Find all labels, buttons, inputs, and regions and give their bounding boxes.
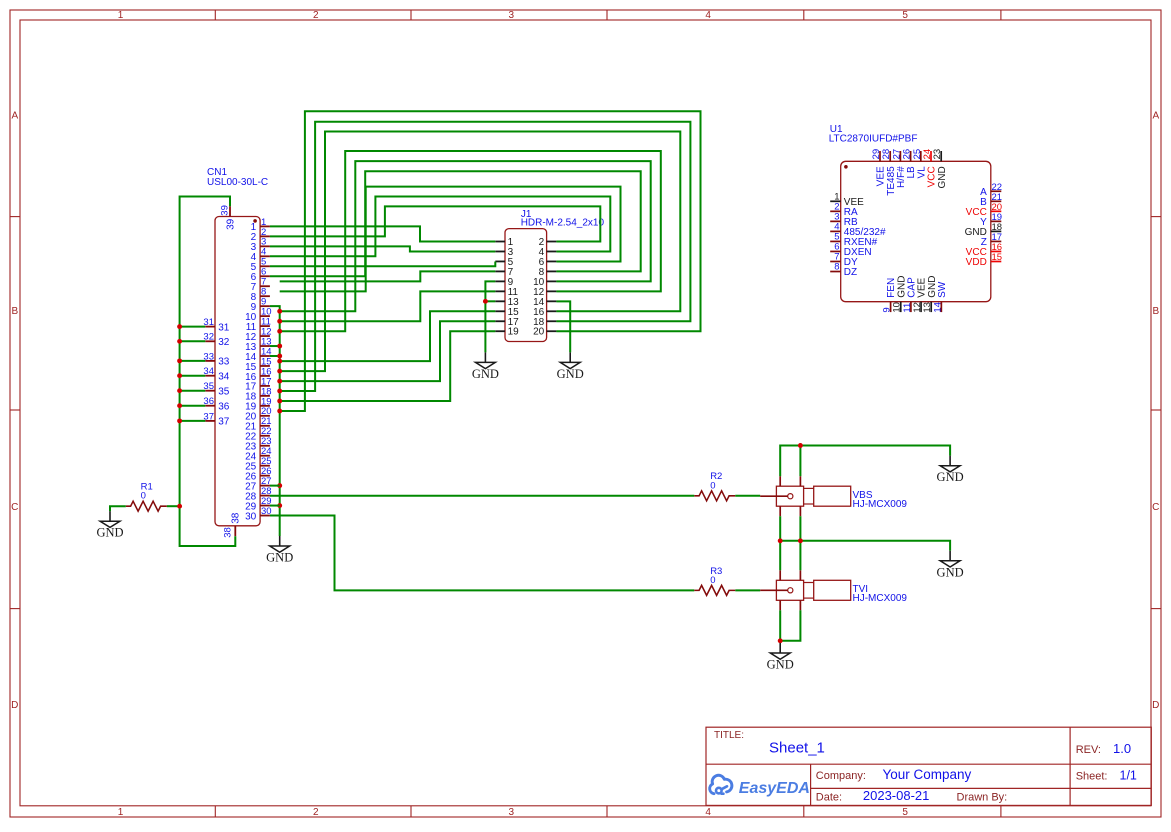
wire R3 to TVI [735, 589, 760, 591]
svg-text:GND: GND [557, 367, 584, 381]
wire rail row401 to J1 pin19 [280, 331, 496, 401]
svg-text:REV:: REV: [1076, 744, 1101, 756]
wire CN1 pin27 to rail [270, 485, 280, 487]
wire VBS bottom / TVI top shields to ground [780, 516, 950, 570]
VBS shield pins [780, 476, 800, 516]
J1 left pins (odd) [495, 237, 519, 338]
TVI signal pin [760, 589, 788, 591]
wire R1 to rail [167, 505, 180, 507]
ground GND rail [266, 536, 293, 565]
svg-text:38: 38 [231, 512, 242, 524]
junction dots on CN1 rail [277, 309, 282, 508]
ruler column labels [118, 10, 909, 818]
svg-text:5: 5 [902, 807, 908, 818]
svg-text:3: 3 [509, 807, 515, 818]
J1 right pins (even) [533, 237, 556, 338]
CN1 left pins 31-37 [205, 327, 215, 421]
CN1 right pin numbers [261, 217, 272, 517]
svg-text:1.0: 1.0 [1113, 741, 1131, 756]
wire CN1 pin9 ground rail [270, 306, 280, 536]
svg-text:D: D [11, 700, 18, 711]
wire rail row361 to J1 pin15 [280, 311, 496, 361]
CN1 pin 38 bottom stub [223, 512, 242, 538]
wire CN1 pin2 loop9 to J1 pin2 [270, 206, 600, 241]
svg-text:GND: GND [266, 551, 293, 565]
ground GND J1 right [557, 352, 584, 381]
svg-text:2023-08-21: 2023-08-21 [863, 788, 930, 803]
svg-text:14: 14 [932, 302, 943, 313]
ground GND R1 [96, 511, 123, 540]
CN1 right pins 1-30 [260, 226, 270, 515]
ruler row labels [11, 111, 1159, 711]
svg-text:GND: GND [472, 367, 499, 381]
wire CN1 pin14 to rail [270, 355, 280, 357]
svg-text:HJ-MCX009: HJ-MCX009 [853, 499, 908, 510]
wire rail row411 loop1 to J1 pin20 [280, 111, 701, 411]
TVI shield pins [780, 570, 800, 610]
svg-text:36: 36 [218, 402, 230, 413]
svg-text:38: 38 [223, 527, 234, 538]
svg-text:Company:: Company: [816, 770, 866, 782]
svg-text:GND: GND [937, 166, 948, 188]
svg-text:15: 15 [992, 252, 1003, 263]
svg-text:GND: GND [767, 658, 794, 672]
CN1 right pin names [245, 222, 257, 522]
wire CN1 pin28 to R2 [270, 495, 694, 497]
wire R1 to ground [110, 506, 126, 511]
wire CN1 pin6 loop6 to J1 pin8 [270, 171, 641, 276]
svg-text:GND: GND [937, 565, 964, 579]
connector TVI HJ-MCX009 body [776, 580, 850, 600]
connector J1 body [505, 229, 547, 342]
svg-text:2: 2 [313, 807, 319, 818]
svg-text:35: 35 [218, 387, 230, 398]
svg-text:39: 39 [220, 205, 231, 216]
svg-text:30: 30 [245, 511, 257, 522]
resistor R3 [694, 585, 735, 595]
wire row291 loop7 to J1 pin6 [280, 187, 621, 292]
svg-text:1: 1 [118, 10, 124, 21]
resistor R1 [126, 501, 167, 511]
wire rail row321 to J1 pin11 [280, 291, 496, 321]
wire rail row391 loop2 to J1 pin18 [280, 122, 691, 391]
CN1 left pin names [218, 322, 230, 427]
svg-text:A: A [1152, 111, 1159, 122]
svg-text:34: 34 [218, 372, 230, 383]
svg-text:HJ-MCX009: HJ-MCX009 [853, 593, 908, 604]
svg-text:33: 33 [218, 357, 230, 368]
wires CN1 pins31-37 to left rail [180, 327, 206, 421]
junction TVI bottom [778, 638, 783, 643]
svg-text:3: 3 [509, 10, 515, 21]
VBS signal pin [760, 495, 788, 497]
svg-text:20: 20 [533, 327, 545, 338]
wire CN1 pin3 to J1 pin3 [270, 246, 495, 251]
wire CN1 pin29 to rail [270, 505, 280, 507]
wire J1 pin9 pin13 to ground [485, 281, 495, 352]
svg-text:GND: GND [96, 526, 123, 540]
svg-text:TITLE:: TITLE: [714, 730, 744, 741]
svg-text:32: 32 [218, 337, 230, 348]
junction dots pins31-37 [177, 324, 182, 423]
svg-text:1: 1 [118, 807, 124, 818]
wire rail row371 loop3 to J1 pin16 [280, 132, 681, 372]
svg-text:0: 0 [710, 575, 715, 586]
svg-text:D: D [1152, 700, 1159, 711]
wire J1 pin14 to ground [556, 301, 570, 352]
ground GND TVI [767, 643, 794, 672]
connector CN1 body [215, 217, 260, 526]
svg-text:EasyEDA: EasyEDA [739, 780, 810, 797]
wire CN1 pin39 to left rail and pin38 [180, 197, 236, 547]
svg-text:C: C [11, 502, 18, 513]
svg-text:Your Company: Your Company [883, 767, 972, 782]
wire rail row381 to J1 pin17 [280, 321, 496, 381]
svg-text:4: 4 [705, 10, 711, 21]
wire CN1 pin1 to J1 pin1 [270, 226, 495, 241]
svg-text:C: C [1152, 502, 1159, 513]
svg-text:HDR-M-2.54_2x10: HDR-M-2.54_2x10 [521, 218, 605, 229]
junction VBS top [798, 443, 803, 448]
junction mid shield left [778, 538, 783, 543]
U1 left pins 1-8 [830, 192, 886, 279]
svg-text:1/1: 1/1 [1120, 769, 1137, 783]
U1 right pins 15-22 [965, 182, 1003, 268]
svg-text:23: 23 [932, 149, 943, 160]
IC U1 body [841, 161, 991, 301]
svg-text:8: 8 [834, 262, 839, 273]
wire R2 to VBS [735, 495, 760, 497]
svg-text:A: A [11, 111, 18, 122]
svg-text:5: 5 [902, 10, 908, 21]
ground GND J1 left [472, 352, 499, 381]
svg-text:0: 0 [710, 480, 715, 491]
ground GND VBS top [937, 456, 964, 485]
svg-text:B: B [11, 306, 18, 317]
wire TVI bottom shields to ground [780, 610, 800, 641]
svg-text:Sheet_1: Sheet_1 [769, 740, 825, 757]
svg-text:2: 2 [313, 10, 319, 21]
resistor R2 [694, 491, 735, 501]
svg-text:37: 37 [218, 417, 230, 428]
wire CN1 pin4 loop8 to J1 pin4 [270, 197, 610, 257]
CN1 pin 39 top stub [220, 205, 237, 230]
svg-text:4: 4 [705, 807, 711, 818]
junction mid shield right [798, 538, 803, 543]
wire CN1 pin30 to R3 [270, 516, 694, 591]
title block frame [706, 727, 1151, 805]
junction J1 pin13 [483, 299, 488, 304]
svg-text:DZ: DZ [844, 267, 857, 278]
svg-text:Drawn By:: Drawn By: [957, 792, 1008, 804]
svg-text:0: 0 [141, 491, 146, 502]
svg-text:LTC2870IUFD#PBF: LTC2870IUFD#PBF [829, 134, 918, 145]
junction R1 rail [177, 504, 182, 509]
svg-text:B: B [1152, 306, 1159, 317]
svg-text:VDD: VDD [966, 257, 987, 268]
wire VBS top shields to ground [780, 446, 950, 477]
svg-text:SW: SW [937, 281, 948, 298]
wire rail row331 loop4 to J1 pin12 [280, 151, 661, 331]
svg-text:USL00-30L-C: USL00-30L-C [207, 177, 268, 188]
EasyEDA logo cloud icon [710, 775, 732, 793]
wire row281 to J1 pin7 [280, 271, 496, 281]
connector VBS HJ-MCX009 body [776, 486, 850, 506]
svg-text:39: 39 [225, 218, 236, 230]
wire CN1 pin13 to rail [270, 345, 280, 347]
wire CN1 pin5 to J1 pin5 [270, 261, 495, 266]
U1 bottom pins 9-14 [882, 276, 948, 313]
ground GND mid [937, 551, 964, 580]
svg-text:GND: GND [937, 470, 964, 484]
svg-text:Sheet:: Sheet: [1076, 771, 1108, 783]
svg-text:31: 31 [218, 322, 230, 333]
wire rail row311 loop5 to J1 pin10 [280, 161, 651, 311]
U1 top pins 23-29 [871, 149, 948, 196]
svg-text:19: 19 [508, 327, 520, 338]
CN1 left pin numbers [203, 317, 214, 422]
svg-text:Date:: Date: [816, 792, 842, 804]
